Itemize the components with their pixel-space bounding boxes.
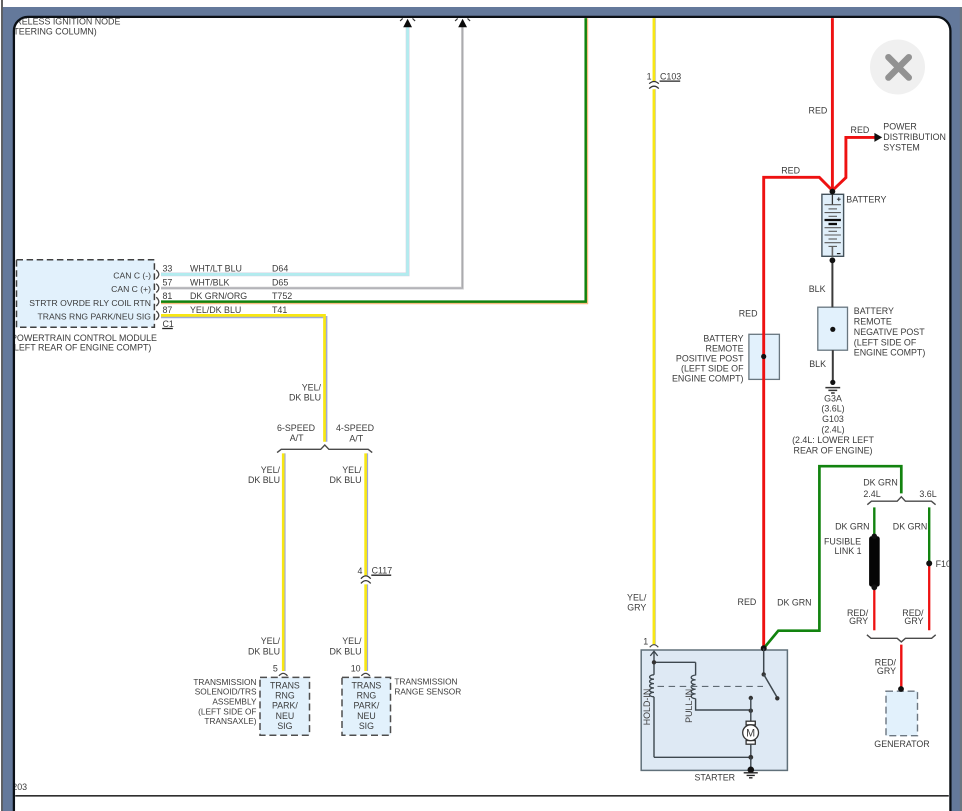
svg-text:PARK/: PARK/ — [272, 701, 298, 711]
svg-text:RED: RED — [738, 597, 757, 607]
svg-text:81: 81 — [163, 291, 173, 301]
svg-text:DISTRIBUTION: DISTRIBUTION — [883, 132, 946, 142]
svg-text:33: 33 — [163, 264, 173, 274]
svg-text:DK BLU: DK BLU — [329, 475, 361, 485]
svg-text:(LEFT REAR OF ENGINE COMPT): (LEFT REAR OF ENGINE COMPT) — [11, 342, 151, 352]
svg-text:TRANSAXLE): TRANSAXLE) — [204, 716, 256, 726]
svg-text:4: 4 — [357, 566, 362, 576]
svg-text:SYSTEM: SYSTEM — [883, 142, 920, 152]
svg-text:A/T: A/T — [349, 433, 363, 443]
svg-text:DK BLU: DK BLU — [289, 393, 321, 403]
svg-text:D65: D65 — [272, 277, 288, 287]
svg-text:BATTERY: BATTERY — [846, 194, 886, 204]
svg-text:T41: T41 — [272, 305, 287, 315]
svg-text:DK GRN: DK GRN — [835, 522, 870, 532]
svg-text:POWERTRAIN CONTROL MODULE: POWERTRAIN CONTROL MODULE — [11, 333, 157, 343]
svg-text:RED: RED — [781, 165, 800, 175]
svg-text:YEL/: YEL/ — [261, 636, 281, 646]
svg-text:RED: RED — [809, 105, 828, 115]
svg-text:DK GRN: DK GRN — [863, 478, 898, 488]
svg-text:ENGINE COMPT): ENGINE COMPT) — [672, 373, 744, 383]
svg-text:RED: RED — [851, 125, 870, 135]
svg-text:RNG: RNG — [357, 691, 377, 701]
svg-text:TRANS: TRANS — [351, 680, 381, 690]
svg-text:WHT/LT BLU: WHT/LT BLU — [190, 264, 242, 274]
svg-text:G103: G103 — [822, 414, 844, 424]
svg-text:DK GRN: DK GRN — [777, 597, 812, 607]
svg-text:RED: RED — [739, 308, 758, 318]
svg-text:DK GRN/ORG: DK GRN/ORG — [190, 291, 247, 301]
svg-text:57: 57 — [163, 277, 173, 287]
svg-text:STARTER: STARTER — [694, 772, 735, 782]
svg-text:5: 5 — [273, 664, 278, 674]
svg-text:(3.6L): (3.6L) — [821, 404, 844, 414]
svg-text:GRY: GRY — [877, 666, 896, 676]
svg-text:A/T: A/T — [290, 433, 304, 443]
svg-text:POWER: POWER — [883, 122, 917, 132]
svg-text:GENERATOR: GENERATOR — [874, 739, 929, 749]
svg-text:YEL/: YEL/ — [342, 636, 362, 646]
svg-text:BATTERY: BATTERY — [854, 306, 894, 316]
svg-text:STRTR OVRDE RLY COIL RTN: STRTR OVRDE RLY COIL RTN — [29, 298, 151, 308]
svg-text:(2.4L: LOWER LEFT: (2.4L: LOWER LEFT — [792, 435, 874, 445]
svg-text:RNG: RNG — [275, 691, 295, 701]
svg-text:D64: D64 — [272, 264, 288, 274]
svg-text:C103: C103 — [660, 72, 681, 82]
svg-text:2.4L: 2.4L — [863, 489, 880, 499]
svg-text:6-SPEED: 6-SPEED — [277, 423, 315, 433]
svg-text:SIG: SIG — [277, 721, 292, 731]
svg-text:C1: C1 — [163, 319, 174, 329]
svg-text:HOLD-IN: HOLD-IN — [642, 689, 652, 726]
svg-text:NEU: NEU — [357, 711, 376, 721]
svg-text:BLK: BLK — [809, 284, 826, 294]
svg-text:REMOTE: REMOTE — [854, 317, 892, 327]
svg-text:(LEFT SIDE OF: (LEFT SIDE OF — [198, 706, 256, 716]
svg-text:G3A: G3A — [824, 393, 842, 403]
svg-text:WHT/BLK: WHT/BLK — [190, 277, 230, 287]
svg-text:(2.4L): (2.4L) — [821, 425, 844, 435]
svg-text:BLK: BLK — [809, 359, 826, 369]
svg-text:SOLENOID/TRS: SOLENOID/TRS — [195, 687, 257, 697]
svg-text:TRANS RNG PARK/NEU SIG: TRANS RNG PARK/NEU SIG — [38, 312, 152, 322]
svg-text:YEL/: YEL/ — [342, 465, 362, 475]
svg-text:YEL/DK BLU: YEL/DK BLU — [190, 305, 241, 315]
svg-text:TRANSMISSION: TRANSMISSION — [394, 677, 457, 687]
svg-text:M: M — [746, 728, 755, 740]
svg-text:TRANS: TRANS — [270, 680, 300, 690]
svg-text:(LEFT SIDE OF: (LEFT SIDE OF — [854, 337, 917, 347]
svg-text:87: 87 — [163, 305, 173, 315]
svg-text:(STEERING COLUMN): (STEERING COLUMN) — [5, 26, 97, 36]
svg-text:PARK/: PARK/ — [354, 701, 380, 711]
svg-text:BATTERY: BATTERY — [703, 333, 743, 343]
svg-text:NEGATIVE POST: NEGATIVE POST — [854, 327, 925, 337]
svg-text:RANGE SENSOR: RANGE SENSOR — [394, 686, 461, 696]
svg-text:CAN C (+): CAN C (+) — [111, 284, 151, 294]
svg-text:YEL/: YEL/ — [261, 465, 281, 475]
svg-text:ENGINE COMPT): ENGINE COMPT) — [854, 348, 926, 358]
svg-text:C117: C117 — [372, 566, 393, 576]
svg-text:T752: T752 — [272, 291, 292, 301]
svg-text:DK BLU: DK BLU — [329, 646, 361, 656]
svg-text:YEL/: YEL/ — [302, 382, 322, 392]
svg-text:4-SPEED: 4-SPEED — [336, 423, 374, 433]
svg-text:DK GRN: DK GRN — [893, 522, 928, 532]
svg-text:10: 10 — [351, 664, 361, 674]
svg-text:TRANSMISSION: TRANSMISSION — [193, 677, 256, 687]
svg-text:FUSIBLE: FUSIBLE — [824, 536, 861, 546]
svg-text:SIG: SIG — [359, 721, 374, 731]
svg-text:GRY: GRY — [627, 603, 646, 613]
svg-text:REAR OF ENGINE): REAR OF ENGINE) — [794, 445, 873, 455]
svg-text:ASSEMBLY: ASSEMBLY — [212, 697, 257, 707]
svg-text:NEU: NEU — [276, 711, 295, 721]
svg-text:LINK 1: LINK 1 — [834, 546, 861, 556]
svg-text:DK BLU: DK BLU — [248, 646, 280, 656]
svg-text:1: 1 — [643, 637, 648, 647]
svg-text:POSITIVE POST: POSITIVE POST — [676, 353, 744, 363]
svg-text:YEL/: YEL/ — [627, 592, 647, 602]
svg-text:GRY: GRY — [904, 616, 923, 626]
svg-text:(LEFT SIDE OF: (LEFT SIDE OF — [681, 363, 744, 373]
svg-text:1: 1 — [647, 72, 652, 82]
svg-text:CAN C (-): CAN C (-) — [113, 270, 151, 280]
svg-text:3.6L: 3.6L — [919, 489, 936, 499]
svg-text:PULL-IN: PULL-IN — [684, 689, 694, 723]
svg-text:REMOTE: REMOTE — [706, 343, 744, 353]
svg-text:DK BLU: DK BLU — [248, 475, 280, 485]
svg-text:GRY: GRY — [849, 616, 868, 626]
